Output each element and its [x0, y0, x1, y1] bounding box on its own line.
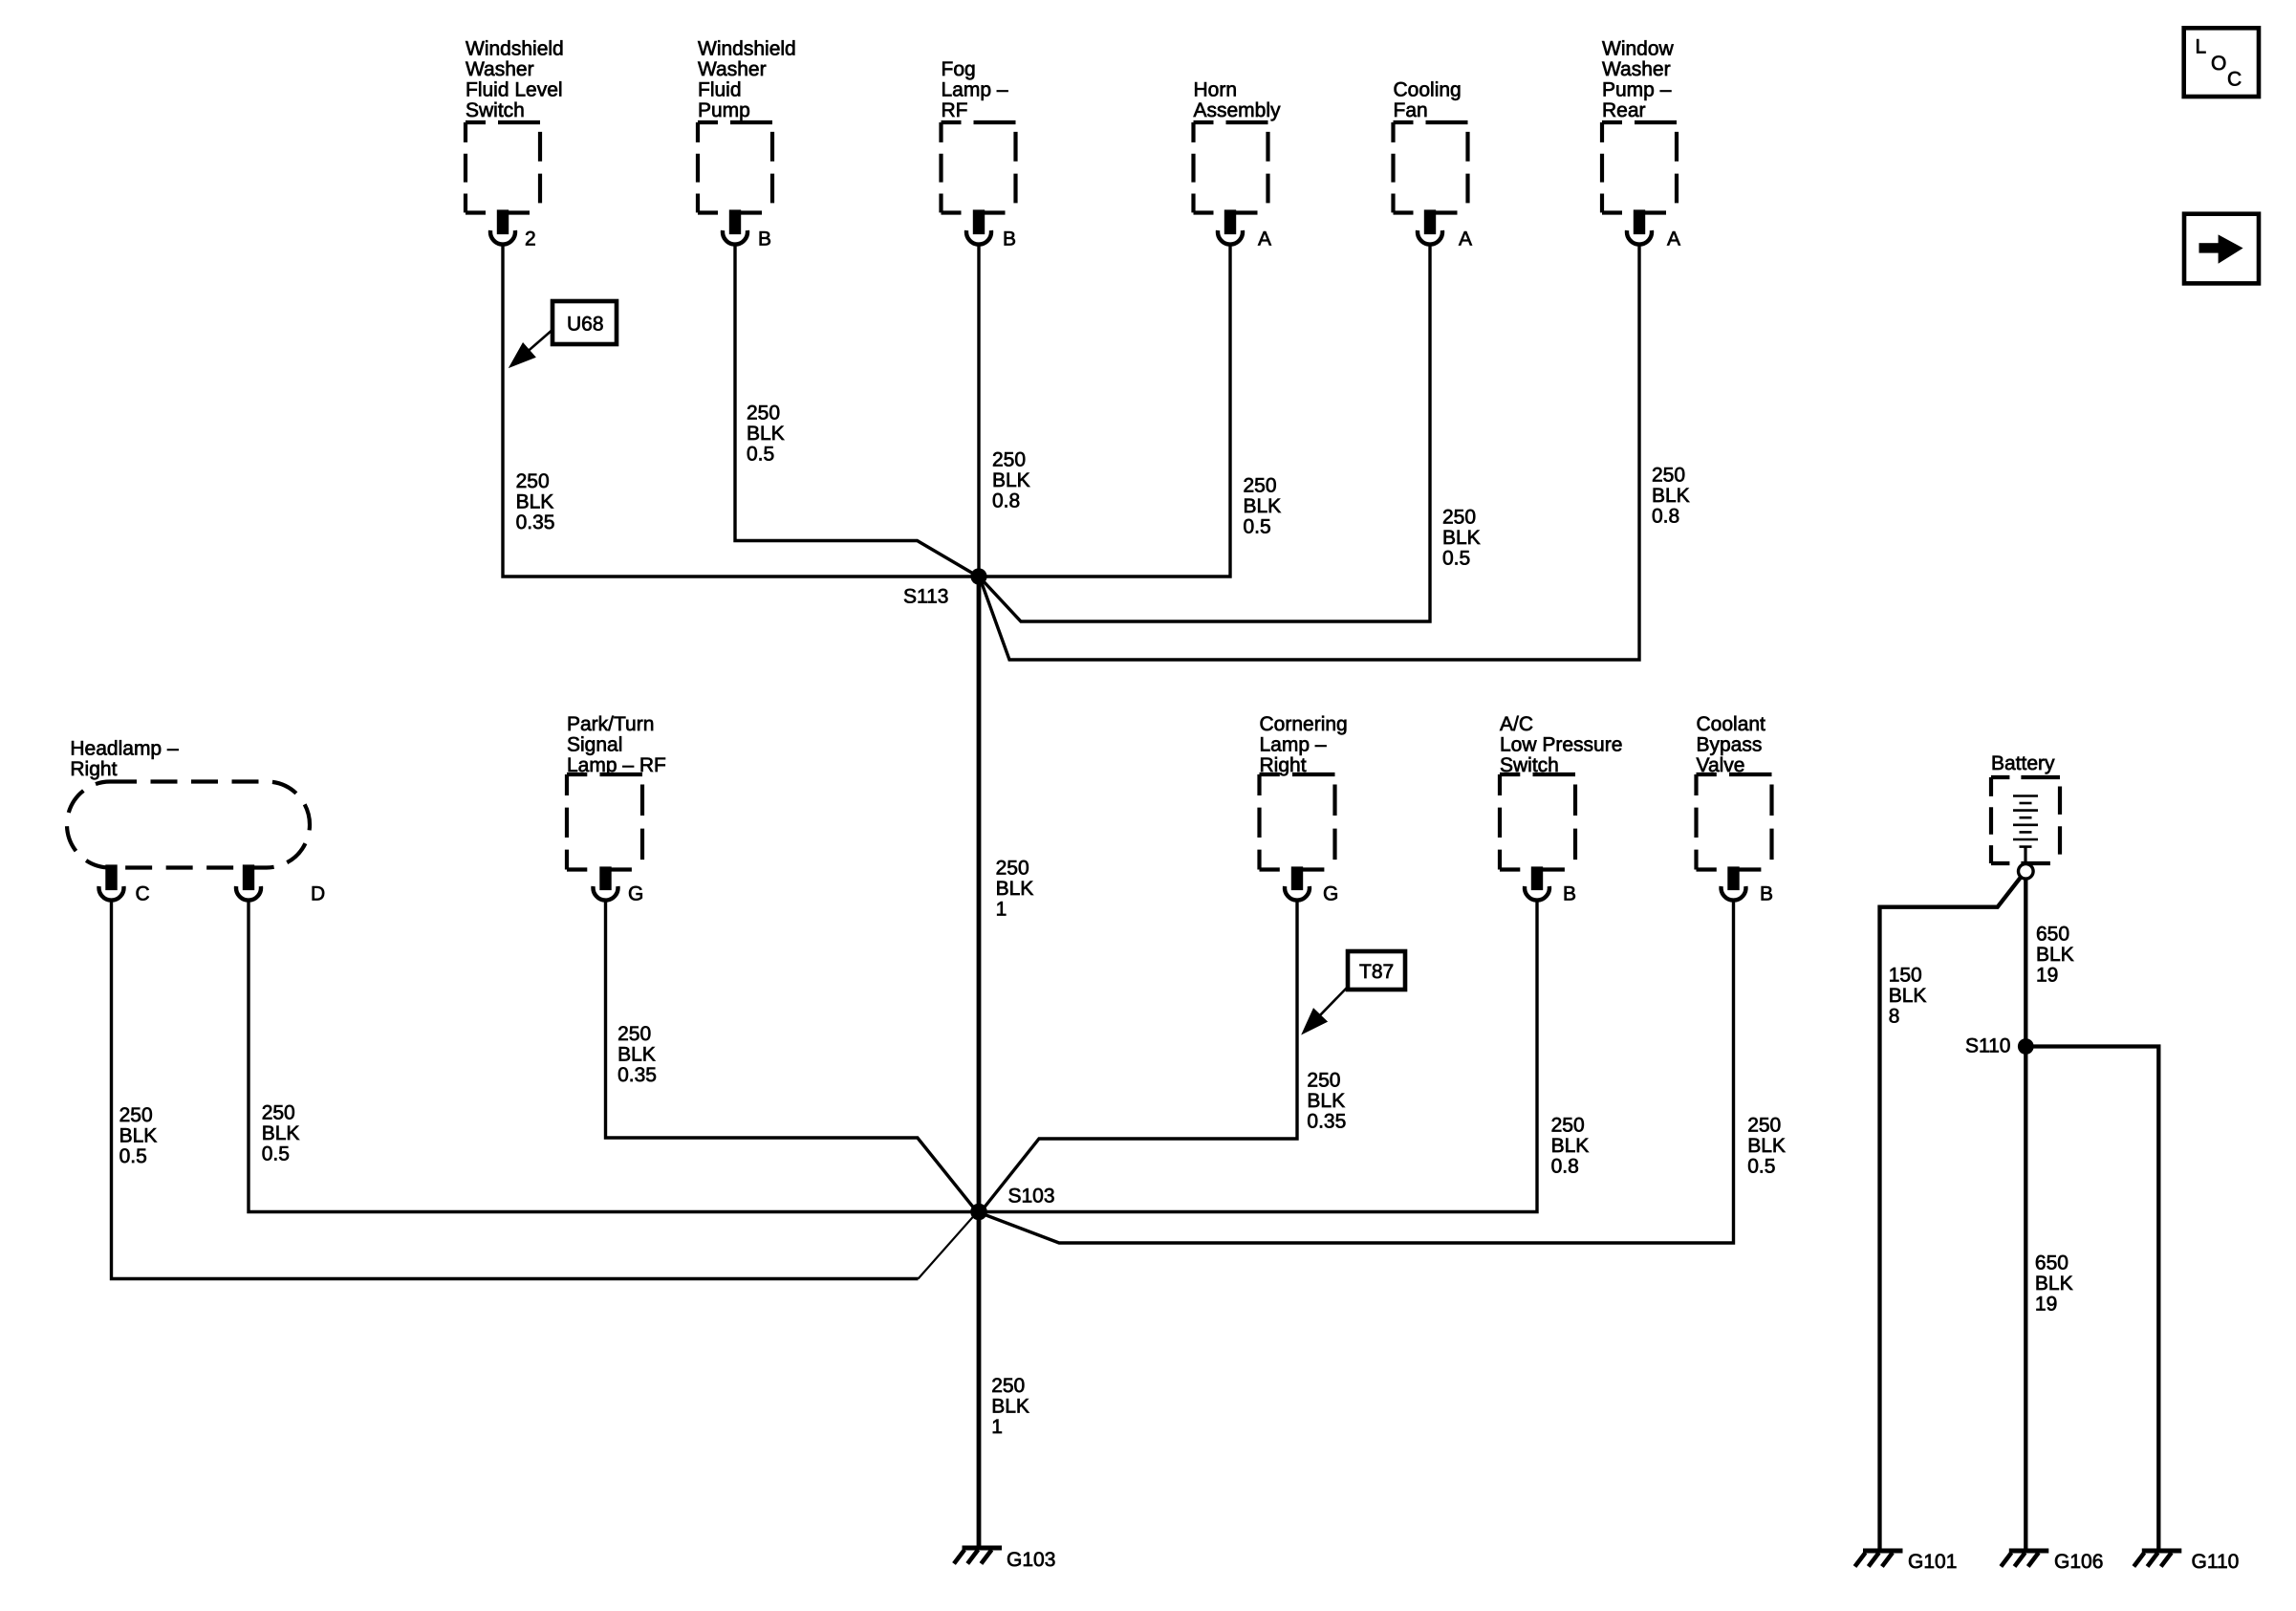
svg-text:Horn: Horn: [1194, 79, 1238, 101]
svg-text:S110: S110: [1965, 1034, 2011, 1056]
svg-text:250: 250: [1244, 475, 1277, 497]
svg-text:250: 250: [1652, 465, 1685, 487]
wire 250 BLK 0.8 from Fog Lamp pin B down to S113: [977, 244, 980, 577]
svg-text:BLK: BLK: [1889, 985, 1927, 1007]
svg-text:G: G: [628, 883, 643, 905]
wire label 250 BLK 0.5: [262, 1102, 300, 1165]
svg-text:BLK: BLK: [262, 1122, 300, 1144]
svg-text:Fluid Level: Fluid Level: [466, 79, 563, 101]
svg-text:0.8: 0.8: [992, 490, 1020, 512]
wire label 250 BLK 0.5: [1244, 475, 1282, 538]
svg-text:Bypass: Bypass: [1697, 734, 1763, 756]
svg-text:Pump: Pump: [698, 99, 750, 121]
svg-text:L: L: [2196, 36, 2207, 58]
splice S103: [970, 1186, 1054, 1221]
svg-text:RF: RF: [942, 99, 968, 121]
svg-text:0.5: 0.5: [1747, 1156, 1775, 1178]
svg-text:G: G: [1323, 883, 1338, 905]
svg-text:B: B: [1760, 883, 1773, 905]
svg-text:BLK: BLK: [2035, 1273, 2073, 1295]
svg-text:BLK: BLK: [747, 423, 785, 445]
svg-text:Headlamp –: Headlamp –: [70, 738, 179, 760]
svg-text:Lamp –: Lamp –: [942, 79, 1008, 101]
svg-text:BLK: BLK: [119, 1125, 158, 1147]
wire 250 BLK 0.35 from Washer Fluid Level Switch pin 2 to S113: [503, 244, 971, 577]
svg-text:A: A: [1258, 229, 1271, 250]
svg-text:G110: G110: [2192, 1551, 2240, 1573]
wire label 250 BLK 0.5: [119, 1104, 158, 1167]
svg-text:U68: U68: [567, 314, 604, 336]
wire label 150 BLK 8: [1889, 965, 1927, 1028]
wire 650 BLK 19 from battery to S110: [2024, 879, 2027, 1046]
svg-text:0.35: 0.35: [516, 512, 555, 533]
component Windshield Washer Fluid Pump: [698, 38, 796, 250]
svg-text:G101: G101: [1908, 1551, 1957, 1573]
svg-text:250: 250: [1747, 1115, 1781, 1137]
svg-text:1: 1: [991, 1416, 1003, 1438]
svg-text:Washer: Washer: [1602, 58, 1671, 80]
svg-text:0.35: 0.35: [617, 1064, 657, 1086]
svg-text:BLK: BLK: [2036, 944, 2074, 966]
svg-text:0.5: 0.5: [747, 444, 774, 466]
svg-text:2: 2: [525, 229, 536, 250]
component Horn Assembly: [1194, 79, 1282, 250]
svg-text:BLK: BLK: [1307, 1090, 1345, 1112]
ground G101: [1855, 1551, 1958, 1573]
splice S110: [1965, 1034, 2034, 1056]
wire 250 BLK 0.35 from Cornering Lamp pin G to S103: [983, 901, 1297, 1210]
svg-text:BLK: BLK: [996, 878, 1034, 900]
svg-text:650: 650: [2035, 1252, 2069, 1274]
svg-text:0.8: 0.8: [1652, 506, 1679, 528]
wire 150 BLK 8 from battery to G101: [1880, 878, 2022, 1552]
svg-text:0.8: 0.8: [1551, 1156, 1579, 1178]
svg-text:Park/Turn: Park/Turn: [567, 713, 654, 735]
svg-text:Window: Window: [1602, 38, 1675, 60]
callout T87: [1306, 951, 1406, 1031]
svg-text:Assembly: Assembly: [1194, 99, 1282, 121]
wire 650 BLK 19 from S110 to G106: [2024, 1047, 2027, 1552]
svg-text:S113: S113: [903, 586, 949, 608]
svg-text:BLK: BLK: [617, 1043, 656, 1065]
wire label 250 BLK 0.8: [1652, 465, 1690, 528]
wire 250 BLK 1 from S103 to G103: [977, 1212, 982, 1549]
wire label 250 BLK 0.35: [516, 470, 555, 533]
svg-text:19: 19: [2035, 1294, 2057, 1316]
svg-text:250: 250: [1307, 1069, 1340, 1091]
wire 250 BLK 0.8 from A/C Low Pressure Switch pin B to S103: [986, 901, 1537, 1212]
wire label 650 BLK 19 (upper): [2036, 924, 2074, 987]
wire label 250 BLK 0.8: [1551, 1115, 1590, 1178]
svg-text:Rear: Rear: [1602, 99, 1646, 121]
svg-text:BLK: BLK: [516, 491, 554, 513]
ground G106: [2001, 1551, 2103, 1573]
component Park/Turn Signal Lamp - RF: [567, 713, 666, 905]
component Coolant Bypass Valve: [1697, 713, 1774, 905]
wire 250 BLK 0.5 from Coolant Bypass Valve pin B to S103: [984, 901, 1734, 1244]
svg-text:BLK: BLK: [1244, 495, 1282, 517]
svg-text:Lamp –: Lamp –: [1260, 734, 1327, 756]
svg-text:BLK: BLK: [1652, 485, 1690, 507]
svg-text:250: 250: [1551, 1115, 1585, 1137]
svg-text:Fog: Fog: [942, 58, 976, 80]
svg-text:150: 150: [1889, 965, 1922, 987]
svg-text:BLK: BLK: [1442, 527, 1481, 549]
battery terminal circle: [2019, 864, 2034, 880]
svg-text:Windshield: Windshield: [466, 38, 564, 60]
component Battery: [1991, 752, 2060, 863]
svg-text:BLK: BLK: [1747, 1135, 1786, 1157]
wire 250 BLK 0.5 from Horn Assembly pin A to S113: [986, 244, 1230, 577]
svg-text:Signal: Signal: [567, 734, 622, 756]
ground G103: [954, 1548, 1055, 1571]
svg-text:S103: S103: [1008, 1186, 1055, 1208]
wire 250 BLK 0.8 from Window Washer Pump Rear pin A to S113: [981, 244, 1639, 660]
wire label 250 BLK 0.35: [1307, 1069, 1346, 1132]
svg-text:0.35: 0.35: [1307, 1110, 1346, 1132]
svg-text:Fan: Fan: [1394, 99, 1428, 121]
svg-text:Low Pressure: Low Pressure: [1500, 734, 1622, 756]
LOC reference box: [2184, 28, 2259, 97]
wire label 250 BLK 1 (upper): [996, 858, 1034, 921]
svg-text:Right: Right: [70, 758, 117, 780]
svg-text:1: 1: [996, 899, 1007, 921]
svg-text:8: 8: [1889, 1006, 1900, 1028]
svg-text:250: 250: [617, 1023, 651, 1045]
wire 250 BLK 0.5 from Headlamp pin D to S103: [249, 901, 971, 1212]
svg-text:250: 250: [119, 1104, 153, 1126]
wire 250 BLK 0.35 from Park/Turn Signal Lamp pin G to S103: [606, 901, 976, 1210]
wire 250 BLK 0.5 from Headlamp pin C to S103: [112, 901, 919, 1279]
svg-text:0.5: 0.5: [262, 1143, 290, 1165]
wire 250 BLK 0.5 from Washer Fluid Pump pin B to S113: [735, 244, 975, 575]
svg-text:C: C: [2227, 69, 2242, 91]
component A/C Low Pressure Switch: [1500, 713, 1622, 905]
svg-text:Cornering: Cornering: [1260, 713, 1348, 735]
component Headlamp - Right: [67, 738, 325, 905]
svg-text:Fluid: Fluid: [698, 79, 742, 101]
svg-text:G103: G103: [1007, 1549, 1055, 1571]
svg-text:B: B: [1563, 883, 1576, 905]
wire label 250 BLK 0.35: [617, 1023, 657, 1086]
svg-text:A: A: [1459, 229, 1472, 250]
svg-text:BLK: BLK: [991, 1396, 1029, 1418]
svg-text:Washer: Washer: [698, 58, 767, 80]
svg-text:A/C: A/C: [1500, 713, 1533, 735]
svg-text:Pump –: Pump –: [1602, 79, 1672, 101]
wire label 650 BLK 19 (lower): [2035, 1252, 2073, 1316]
ground G110: [2134, 1551, 2239, 1573]
wire 250 BLK 1 trunk S113 to S103: [977, 577, 982, 1212]
svg-text:B: B: [758, 229, 771, 250]
svg-text:Switch: Switch: [466, 99, 525, 121]
svg-text:250: 250: [262, 1102, 295, 1124]
splice S113: [903, 568, 987, 607]
svg-text:0.5: 0.5: [119, 1145, 147, 1167]
svg-text:0.5: 0.5: [1442, 548, 1470, 570]
svg-text:Cooling: Cooling: [1394, 79, 1462, 101]
svg-text:C: C: [136, 883, 150, 905]
svg-text:250: 250: [1442, 507, 1476, 529]
wire label 250 BLK 0.5: [1747, 1115, 1786, 1178]
svg-text:250: 250: [991, 1375, 1025, 1397]
svg-text:Windshield: Windshield: [698, 38, 796, 60]
component Window Washer Pump - Rear: [1602, 38, 1680, 250]
svg-text:250: 250: [747, 403, 780, 425]
svg-text:650: 650: [2036, 924, 2069, 946]
component Cornering Lamp - Right: [1260, 713, 1348, 905]
svg-text:D: D: [311, 883, 325, 905]
svg-text:T87: T87: [1359, 961, 1394, 983]
wire label 250 BLK 0.5: [1442, 507, 1481, 570]
callout U68: [513, 301, 617, 364]
component Cooling Fan: [1394, 79, 1473, 250]
svg-text:BLK: BLK: [992, 469, 1030, 491]
wire 250 BLK 0.5 from Cooling Fan pin A to S113: [982, 244, 1430, 621]
svg-text:250: 250: [992, 449, 1026, 471]
svg-text:Coolant: Coolant: [1697, 713, 1766, 735]
wire label 250 BLK 1 (lower): [991, 1375, 1029, 1438]
battery cell symbol: [2013, 796, 2038, 864]
svg-text:250: 250: [996, 858, 1029, 880]
svg-text:Battery: Battery: [1991, 752, 2055, 774]
svg-text:O: O: [2211, 53, 2226, 75]
svg-text:B: B: [1003, 229, 1016, 250]
component Windshield Washer Fluid Level Switch: [466, 38, 564, 250]
svg-text:G106: G106: [2054, 1551, 2103, 1573]
svg-text:19: 19: [2036, 965, 2058, 987]
wire label 250 BLK 0.5: [747, 403, 785, 466]
svg-text:0.5: 0.5: [1244, 516, 1271, 538]
arrow legend box: [2184, 214, 2259, 284]
svg-text:Washer: Washer: [466, 58, 534, 80]
svg-text:BLK: BLK: [1551, 1135, 1590, 1157]
component Fog Lamp - RF: [942, 58, 1017, 250]
wire from S110 to G110: [2025, 1047, 2158, 1552]
svg-text:A: A: [1667, 229, 1680, 250]
svg-text:250: 250: [516, 470, 550, 492]
wire label 250 BLK 0.8: [992, 449, 1030, 512]
